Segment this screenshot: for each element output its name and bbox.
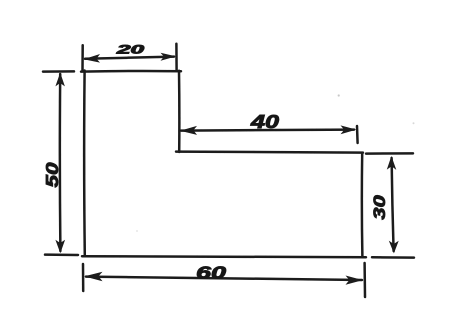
- svg-text:30: 30: [370, 195, 389, 220]
- svg-text:50: 50: [42, 162, 62, 187]
- svg-text:60: 60: [196, 263, 226, 283]
- svg-text:20: 20: [115, 42, 145, 56]
- svg-text:40: 40: [250, 112, 279, 132]
